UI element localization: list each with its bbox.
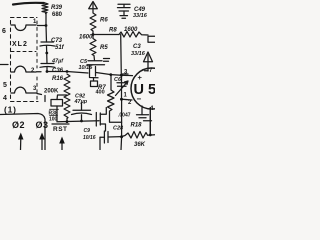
svg-text:1600: 1600	[124, 27, 138, 33]
svg-text:1600: 1600	[79, 35, 93, 41]
svg-text:2: 2	[31, 68, 35, 74]
svg-text:R5: R5	[100, 45, 108, 51]
svg-text:C73: C73	[51, 38, 63, 44]
svg-text:5: 5	[3, 82, 7, 89]
svg-text:33/16: 33/16	[133, 13, 148, 19]
svg-text:10/16: 10/16	[83, 135, 96, 141]
svg-text:36K: 36K	[134, 142, 146, 148]
svg-text:Ø3: Ø3	[36, 120, 49, 130]
svg-text:1: 1	[33, 19, 37, 25]
svg-text:400: 400	[96, 90, 105, 96]
svg-text:R6: R6	[100, 18, 108, 24]
svg-text:(1): (1)	[4, 105, 17, 115]
svg-text:C6: C6	[114, 77, 122, 83]
svg-text:200K: 200K	[44, 89, 59, 95]
svg-text:47µp: 47µp	[74, 99, 88, 105]
svg-text:Ø2: Ø2	[12, 120, 25, 130]
svg-text:2: 2	[128, 100, 132, 106]
svg-text:47µf: 47µf	[51, 59, 64, 65]
svg-text:51f: 51f	[55, 45, 65, 51]
svg-text:.0047: .0047	[118, 113, 131, 119]
svg-text:R8: R8	[109, 28, 117, 34]
svg-text:XL2: XL2	[12, 41, 28, 48]
svg-text:1: 1	[124, 93, 128, 99]
svg-text:3: 3	[33, 86, 37, 92]
svg-text:33/16: 33/16	[131, 51, 146, 57]
svg-text:100: 100	[49, 117, 58, 123]
svg-text:R39: R39	[51, 5, 63, 11]
svg-text:10/16: 10/16	[79, 65, 94, 71]
svg-text:6: 6	[2, 28, 6, 35]
svg-text:+: +	[138, 73, 143, 82]
svg-text:RST: RST	[53, 126, 68, 133]
svg-text:C28: C28	[113, 126, 124, 132]
svg-text:7: 7	[149, 68, 153, 74]
svg-text:4: 4	[3, 95, 7, 102]
svg-text:R18: R18	[131, 123, 143, 129]
svg-text:C9: C9	[84, 128, 91, 134]
svg-text:R16: R16	[52, 76, 64, 82]
svg-text:C3: C3	[133, 44, 141, 50]
svg-text:C36: C36	[52, 68, 64, 74]
svg-text:U 5: U 5	[134, 82, 156, 98]
svg-text:680: 680	[52, 12, 63, 18]
